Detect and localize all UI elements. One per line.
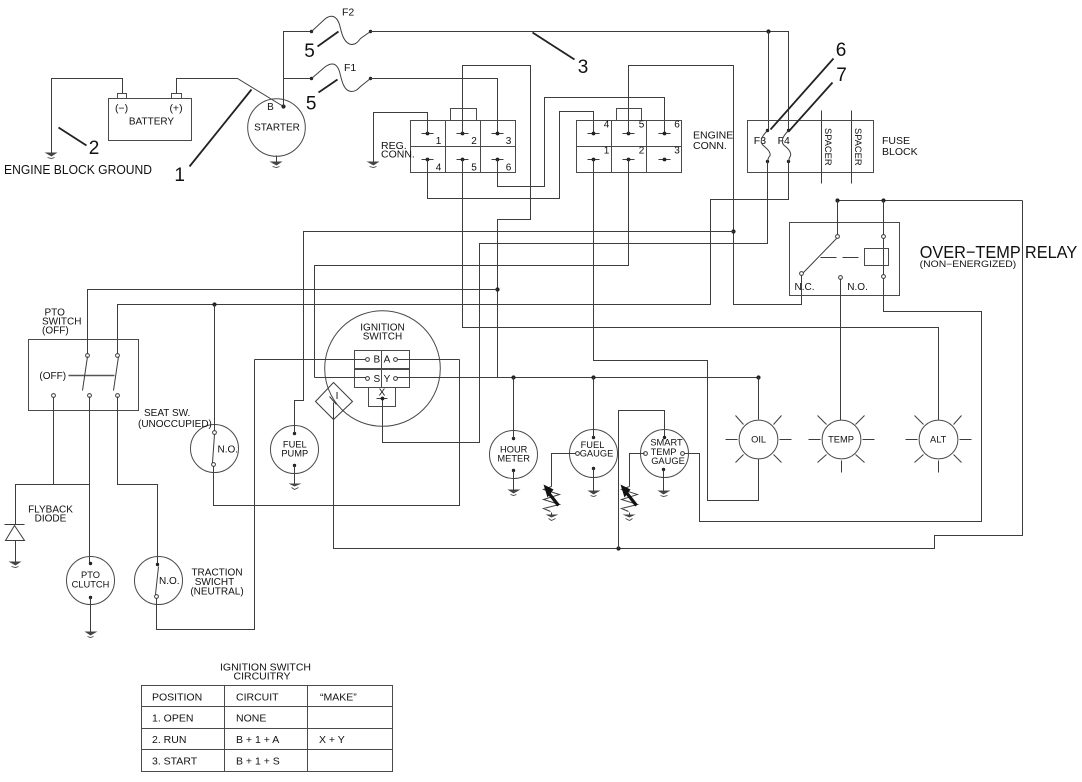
svg-text:A: A: [384, 355, 391, 366]
svg-text:PTO: PTO: [81, 570, 100, 580]
wire starter B up to fuse feeders: [284, 32, 312, 107]
seat switch S2: [191, 425, 239, 473]
svg-text:2: 2: [471, 136, 477, 147]
svg-text:CIRCUIT: CIRCUIT: [236, 692, 279, 704]
wire PTO pole2 bottom to traction switch: [118, 397, 158, 564]
wire relay rail to diamond net (right loop): [334, 201, 1023, 549]
node fuel gauge junction: [591, 375, 595, 379]
wire ENGINE pin5 to relay NC feed: [629, 66, 802, 305]
svg-text:(NON−ENERGIZED): (NON−ENERGIZED): [920, 259, 1017, 269]
starter M1: [248, 99, 306, 157]
svg-text:1: 1: [174, 165, 185, 186]
svg-text:7: 7: [836, 65, 847, 86]
wire relay top rail: [838, 200, 1023, 202]
wire fuel pump to ground: [294, 466, 296, 484]
svg-text:1: 1: [604, 146, 610, 157]
svg-text:N.O.: N.O.: [159, 576, 180, 587]
svg-text:B: B: [267, 102, 274, 113]
svg-text:ALT: ALT: [930, 435, 947, 445]
label 1 with leader: [174, 90, 251, 186]
smart temp gauge M4: [641, 430, 689, 478]
svg-text:3: 3: [674, 146, 680, 157]
wire A row to seat rail: [398, 359, 460, 361]
svg-text:5: 5: [639, 120, 645, 131]
svg-text:2: 2: [89, 138, 100, 159]
node junction fuel pump line: [731, 229, 735, 233]
label 3 with leader: [533, 33, 589, 78]
PTO switch pole 1: [83, 354, 92, 398]
ignition switch S1 circle: [325, 311, 441, 427]
PTO switch pole 2: [114, 354, 120, 398]
svg-text:(OFF): (OFF): [39, 371, 66, 382]
ground engine block ground symbol: [45, 153, 58, 159]
ground fuel pump ground: [289, 484, 302, 490]
wire F3 to X terminal of ignition: [383, 162, 768, 443]
node hour meter junction: [511, 375, 515, 379]
wire F2 output rail to F3 and F4: [371, 32, 789, 131]
wire oil lamp top feed: [758, 378, 760, 420]
wire REG pin4 to ENGINE pin4: [428, 112, 594, 199]
svg-text:SPACER: SPACER: [853, 128, 863, 166]
wire hour meter top feed: [513, 378, 515, 439]
spacer 1: [822, 111, 834, 184]
svg-text:Y: Y: [384, 374, 391, 385]
svg-text:“MAKE”: “MAKE”: [320, 692, 357, 704]
svg-text:CONN.: CONN.: [381, 149, 415, 161]
ignition switch circuitry table: [142, 686, 393, 772]
ground starter ground: [270, 162, 283, 168]
svg-text:3. START: 3. START: [152, 756, 198, 768]
svg-text:F1: F1: [344, 62, 356, 74]
relay linkage dashed: [821, 257, 865, 259]
svg-text:2. RUN: 2. RUN: [152, 734, 186, 746]
node relay common junction: [835, 198, 839, 202]
wire traction bottom to ignition B: [157, 360, 255, 630]
svg-text:N.C.: N.C.: [795, 282, 815, 293]
wire seat bottom to ignition A: [214, 360, 460, 506]
battery BAT1: [109, 94, 192, 141]
node oil lamp junction: [756, 375, 760, 379]
svg-text:GAUGE: GAUGE: [580, 449, 614, 459]
label (OFF) linkage: [39, 371, 114, 382]
wire Y row to gauges rail: [398, 377, 759, 379]
node junction PTO line on pin2 drop: [495, 287, 499, 291]
ground temp sender ground: [623, 513, 636, 521]
svg-text:BATTERY: BATTERY: [129, 117, 175, 128]
wire relay NO to TEMP lamp: [840, 279, 842, 421]
node starter B terminal: [281, 104, 285, 108]
svg-text:1: 1: [436, 136, 442, 147]
node junction smart temp top drop: [616, 546, 620, 550]
wire hour meter ground: [513, 471, 515, 490]
wire fuel pump feed from ENGINE pin5 rail: [295, 232, 734, 434]
label 5 for F1: [306, 80, 338, 115]
svg-text:(−): (−): [115, 103, 128, 115]
PTO clutch L1: [67, 557, 115, 605]
svg-text:GAUGE: GAUGE: [651, 456, 685, 466]
svg-text:5: 5: [304, 41, 315, 62]
svg-text:METER: METER: [497, 454, 530, 464]
wire ENGINE pin2 to ignition S row: [315, 160, 629, 378]
PTO switch box: [29, 340, 139, 411]
ground REG pin1 ground: [367, 162, 380, 168]
svg-text:POSITION: POSITION: [152, 692, 202, 704]
wire S row to ENGINE pin2 rail: [315, 377, 366, 379]
wire smart temp to temp sender: [630, 454, 645, 487]
node junction seat switch drop: [212, 302, 216, 306]
fuse F3: [761, 129, 770, 163]
wire smart temp gauge ground: [663, 470, 665, 491]
wire battery negative to engine block ground: [52, 79, 123, 153]
svg-text:(UNOCCUPIED): (UNOCCUPIED): [138, 419, 212, 430]
svg-text:B: B: [373, 355, 380, 366]
svg-text:F2: F2: [342, 7, 354, 19]
svg-text:6: 6: [674, 120, 680, 131]
wire junction down to F3: [768, 32, 770, 131]
wire F1 output to REG pin3: [371, 79, 498, 134]
diode D1 flyback: [5, 525, 25, 562]
wire B row to traction rail: [255, 359, 366, 361]
wire relay coil to smart temp gauge right pin: [685, 279, 982, 522]
wire ENGINE pin1 to OIL lamp bottom: [594, 160, 759, 501]
label 2 with leader: [59, 128, 100, 159]
svg-text:X + Y: X + Y: [319, 734, 345, 746]
ignition pin B: [366, 355, 381, 366]
svg-text:ENGINE BLOCK GROUND: ENGINE BLOCK GROUND: [4, 162, 152, 177]
svg-text:6: 6: [506, 162, 512, 173]
svg-text:NONE: NONE: [236, 713, 266, 725]
label 6 with leader: [771, 40, 847, 129]
svg-text:4: 4: [436, 162, 442, 173]
svg-text:SEAT SW.: SEAT SW.: [144, 408, 190, 419]
wire fuel gauge ground: [593, 469, 595, 491]
svg-text:5: 5: [306, 93, 317, 114]
svg-text:5: 5: [471, 162, 477, 173]
fuse F4: [782, 129, 790, 163]
fuse block assembly: [748, 121, 918, 173]
svg-text:CONN.: CONN.: [693, 140, 727, 152]
ignition terminal table: [355, 351, 410, 407]
connector REG. CONN.: [381, 109, 516, 174]
hour meter M2: [490, 431, 538, 479]
resistor fuel level sender: [544, 485, 560, 512]
relay K1 over-temp relay box: [790, 223, 900, 296]
svg-text:SWITCH: SWITCH: [363, 332, 402, 343]
svg-text:2: 2: [639, 146, 645, 157]
ignition pin S: [366, 374, 381, 385]
wire smart temp gauge top feed: [619, 411, 665, 549]
svg-text:(NEUTRAL): (NEUTRAL): [190, 587, 243, 598]
wire fuel gauge to fuel sender: [552, 454, 576, 487]
spacer 2: [852, 111, 864, 184]
wire clutch rail to flyback diode: [16, 485, 90, 525]
diamond connector I: [316, 383, 353, 420]
fuel gauge M3: [570, 430, 618, 478]
label 5 for F2: [304, 32, 338, 63]
svg-text:OIL: OIL: [751, 435, 766, 445]
svg-text:BLOCK: BLOCK: [882, 146, 918, 158]
svg-text:DIODE: DIODE: [35, 514, 67, 525]
svg-text:3: 3: [578, 57, 589, 78]
svg-text:STARTER: STARTER: [254, 123, 300, 134]
fuse F2: [310, 7, 372, 45]
svg-text:SPACER: SPACER: [823, 128, 833, 166]
node junction F3 drop: [766, 29, 770, 33]
fuel pump P1: [271, 426, 319, 474]
ground smart temp gauge ground: [658, 491, 671, 497]
wire PTO clutch to ground: [90, 598, 92, 632]
wire PTO common drop: [53, 398, 55, 485]
wire REG pin2 to ignition Y row: [463, 66, 531, 378]
wire REG pin6 to ENGINE pin6: [498, 98, 665, 187]
lamp ALT: [906, 416, 972, 473]
svg-text:(OFF): (OFF): [42, 326, 69, 337]
relay NO contact: [839, 276, 843, 280]
ground fuel sender ground: [546, 513, 559, 521]
svg-text:1. OPEN: 1. OPEN: [152, 713, 193, 725]
svg-text:I: I: [336, 391, 339, 402]
label 7 with leader: [790, 65, 847, 131]
svg-text:N.O.: N.O.: [847, 282, 868, 293]
PTO switch common contact: [52, 394, 56, 398]
ground fuel gauge ground: [588, 491, 601, 497]
traction switch S3: [135, 557, 183, 605]
resistor temp sender: [621, 485, 638, 512]
svg-text:(+): (+): [169, 103, 182, 115]
svg-text:4: 4: [604, 120, 610, 131]
wire PTO pole1 bottom to PTO clutch: [89, 397, 91, 564]
wire PTO pole1 top to junction rail: [88, 290, 498, 354]
wire fuel gauge top feed: [593, 378, 595, 438]
lamp TEMP: [809, 416, 875, 473]
lamp OIL: [726, 416, 792, 463]
relay coil: [865, 201, 889, 279]
ground PTO clutch ground: [85, 632, 98, 638]
svg-text:CIRCUITRY: CIRCUITRY: [234, 671, 291, 683]
ignition pin Y: [384, 374, 398, 385]
wire relay common drop: [837, 201, 839, 235]
svg-text:B + 1 + A: B + 1 + A: [236, 734, 279, 746]
wire F4 to seat/PTO rail: [118, 162, 789, 356]
svg-text:PUMP: PUMP: [281, 449, 308, 459]
svg-text:3: 3: [506, 136, 512, 147]
svg-text:TEMP: TEMP: [828, 435, 854, 445]
connector ENGINE CONN.: [577, 109, 734, 173]
wire battery positive to starter B: [177, 79, 284, 107]
wire branch to fuse F1: [284, 78, 312, 80]
svg-text:B + 1 + S: B + 1 + S: [236, 756, 280, 768]
wire REG pin5 to ALT lamp: [463, 160, 939, 421]
svg-text:6: 6: [836, 40, 847, 61]
ignition pin A: [384, 355, 398, 366]
ground hour meter ground: [508, 490, 521, 496]
svg-text:N.O.: N.O.: [218, 445, 239, 456]
svg-text:F3: F3: [754, 135, 766, 147]
ignition pin X: [377, 388, 388, 401]
wire REG pin1 to ground: [374, 113, 428, 162]
ground flyback diode ground: [9, 562, 22, 568]
svg-text:S: S: [373, 374, 380, 385]
svg-text:CLUTCH: CLUTCH: [72, 580, 110, 590]
wire starter ground stem: [276, 156, 278, 162]
relay switch blade: [800, 235, 840, 276]
node relay coil junction: [881, 198, 885, 202]
fuse F1: [310, 62, 372, 92]
wire seat top feed: [214, 305, 216, 431]
